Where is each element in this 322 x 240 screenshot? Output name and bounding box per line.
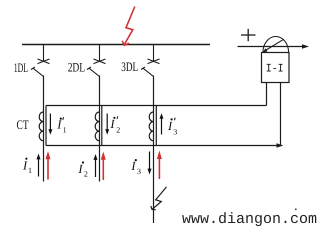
svg-text:I: I	[77, 162, 83, 176]
fault lightning arrow on branch 3	[151, 187, 167, 210]
svg-text:3: 3	[137, 167, 141, 176]
wire branch 1 (below breaker)	[43, 76, 45, 182]
svg-text:1: 1	[28, 166, 32, 175]
current transformer CT2	[95, 112, 99, 141]
svg-text:I-I: I-I	[266, 63, 284, 76]
relay armature arrow	[265, 40, 283, 51]
CT2 secondary lead	[101, 106, 103, 146]
arrow I2 black (up)	[94, 154, 98, 177]
svg-text:1DL: 1DL	[14, 60, 28, 75]
relay right lead	[280, 83, 282, 147]
arrow I'2 (down)	[105, 114, 109, 135]
secondary bottom wire	[46, 145, 278, 147]
label I'1	[56, 117, 66, 134]
svg-text:I: I	[109, 117, 115, 131]
label I1	[22, 158, 32, 176]
wire branch 2 (below breaker)	[99, 76, 101, 182]
svg-text:www.diangon.com: www.diangon.com	[182, 211, 317, 228]
svg-text:3: 3	[173, 127, 177, 136]
svg-text:1: 1	[63, 126, 67, 135]
CT3 secondary lead	[155, 106, 157, 146]
breaker 1DL	[31, 45, 50, 77]
arrow I1 black (up)	[37, 154, 41, 177]
svg-text:2: 2	[84, 170, 88, 179]
stray dot over c in watermark	[295, 208, 297, 210]
arrow I3 black (down)	[148, 152, 152, 175]
breaker 2DL	[87, 45, 106, 77]
arrowhead on bottom wire at relay	[277, 143, 284, 148]
arrow I2 red (up)	[101, 152, 106, 181]
wire branch 3 (below breaker, to fault point)	[153, 76, 155, 224]
svg-text:2DL: 2DL	[68, 59, 85, 74]
relay output line with arrow	[238, 46, 304, 48]
busbar	[22, 44, 210, 46]
breaker 3DL	[141, 45, 160, 77]
label I2	[77, 161, 88, 178]
arrow I1 red (up)	[46, 151, 51, 180]
secondary top wire	[46, 105, 267, 107]
plus polarity mark	[241, 29, 256, 41]
svg-text:I: I	[167, 119, 173, 133]
arrow I3 red (up)	[157, 151, 162, 180]
label I3	[130, 159, 141, 176]
current transformer CT1	[39, 112, 43, 141]
svg-text:CT: CT	[17, 117, 29, 132]
label I'3	[167, 118, 177, 137]
svg-text:I: I	[56, 118, 62, 132]
svg-text:3DL: 3DL	[121, 59, 138, 74]
relay I-I body	[262, 53, 290, 83]
arrow I'3 (up)	[160, 113, 164, 134]
relay I-I dome	[263, 36, 289, 52]
relay left lead	[266, 83, 268, 106]
red lightning arrow (fault on busbar)	[122, 7, 135, 46]
label I'2	[109, 116, 120, 134]
CT1 secondary lead	[45, 106, 47, 146]
arrow I'1 (down)	[48, 114, 52, 135]
svg-text:2: 2	[116, 125, 120, 134]
current transformer CT3	[149, 112, 153, 141]
